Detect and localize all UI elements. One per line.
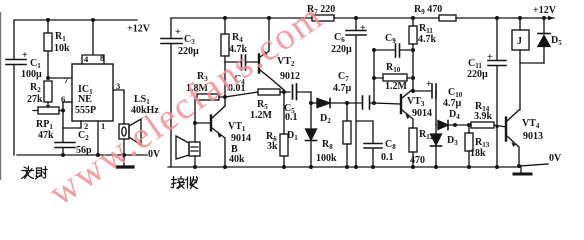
svg-text:8: 8 [100,53,104,63]
node C2 bottom [61,153,65,157]
potentiometer RP1 [47,102,49,107]
node C10 tap [411,89,415,93]
resistor R4 [224,18,226,62]
node C6 bottom [354,165,358,169]
capacitor C10 [413,91,436,125]
node D5 top [542,16,546,20]
resistor R11 [412,18,414,89]
capacitor C9 [374,49,413,51]
svg-text:9014: 9014 [231,133,251,144]
svg-text:18k: 18k [470,148,486,159]
svg-text:R1: R1 [55,31,66,43]
node C9 right [411,48,415,52]
svg-text:1: 1 [101,121,105,131]
wire receiver top rail right [456,17,554,19]
svg-text:VT4: VT4 [522,118,540,130]
svg-text:100k: 100k [316,153,337,164]
wire left scan edge [0,12,1,180]
svg-text:555P: 555P [75,105,96,116]
svg-text:9012: 9012 [280,71,300,82]
svg-text:C9: C9 [385,33,396,45]
svg-text:+: + [426,79,432,90]
svg-text:10k: 10k [54,43,70,54]
node IC supply [91,18,95,22]
resistor R9 [439,15,456,21]
svg-text:220µ: 220µ [178,46,199,57]
ground receiver [520,166,522,173]
svg-text:0.1: 0.1 [285,112,298,123]
node R12 bottom [411,165,415,169]
node R13 bottom [467,165,471,169]
resistor R6 [283,92,285,167]
capacitor C6 [355,18,357,167]
svg-text:R8: R8 [322,139,333,151]
svg-text:VT3: VT3 [407,96,425,108]
svg-text:40k: 40k [229,154,245,165]
svg-text:+: + [360,23,366,34]
svg-text:D3: D3 [447,135,458,147]
op-amp U1 IC1 NE555P box [72,64,113,121]
svg-text:VT1: VT1 [228,121,246,133]
svg-text:+: + [22,50,28,61]
svg-text:D1: D1 [287,130,298,142]
wire pin2 [63,121,81,128]
svg-text:220µ: 220µ [331,44,352,55]
svg-text:1.2M: 1.2M [385,81,408,92]
resistor R13 [468,125,470,167]
node LS1 bottom [122,153,126,157]
transistor Q2 VT2 [258,55,260,73]
wire C5 to D2 jog [310,92,312,103]
svg-text:C2: C2 [78,130,89,142]
node VT1 collector R3 [223,95,227,99]
resistor R8 [346,103,348,167]
node fa-she chinese label 发射 [22,167,48,180]
svg-text:C6: C6 [334,32,345,44]
svg-text:2: 2 [84,121,88,131]
node VT1 base [193,121,197,125]
wire transmitter top rail [14,19,137,21]
node VT4 emitter bottom [517,164,521,168]
node C11 cross [495,125,498,128]
diode D1 [310,103,312,129]
node VT2 emitter [267,16,271,20]
node relay top [518,16,522,20]
node D1 D2 [309,101,313,105]
diode D4 [438,121,448,130]
svg-text:220µ: 220µ [467,69,488,80]
diode D3 [435,125,437,134]
resistor R7 [312,15,334,21]
capacitor C1 [6,60,26,65]
wire receiver top rail left [171,17,312,19]
capacitor C11 [496,18,498,167]
svg-text:27k: 27k [27,94,43,105]
relay J [519,18,521,63]
svg-text:D4: D4 [449,109,460,121]
svg-text:R2: R2 [30,82,41,94]
wire pins 4 8 bracket [82,20,104,64]
node jie-shou chinese label 接收 [171,177,198,189]
transistor Q3 VT3 [400,95,402,113]
node R10 right [411,76,415,80]
node R8 top [345,101,349,105]
ground transmitter [123,155,125,166]
wire receiver top rail mid [334,17,439,19]
node pin7 [46,76,50,80]
diode D5 [543,18,545,34]
node R4 top [223,16,227,20]
capacitor C2 [55,143,75,148]
capacitor C7 [347,102,374,104]
wire C4 node [225,61,259,63]
node C8 bottom [371,165,375,169]
wire pin6 column [62,102,64,155]
node R11 top [411,16,415,20]
resistor R1 [47,20,49,78]
node mic bottom [193,165,197,169]
svg-text:0V: 0V [549,153,562,164]
node D1 bottom [309,165,313,169]
wire feedback vertical [373,50,375,103]
capacitor C4 [242,55,246,70]
svg-text:3: 3 [116,81,120,91]
svg-text:6: 6 [61,94,65,104]
svg-text:C7: C7 [338,71,349,83]
svg-text:100µ: 100µ [21,69,42,80]
node C6 top [354,16,358,20]
node C9 left [372,48,376,52]
node R10 left [372,76,376,80]
capacitor C3 [161,39,182,44]
wire receiver C3 column [170,18,172,167]
svg-text:D5: D5 [551,35,562,47]
node VT3 base feedback [372,101,376,105]
svg-text:+: + [175,27,181,38]
capacitor C5 [284,84,311,100]
node VT1 emitter bottom [223,165,227,169]
resistor R14 [471,122,494,128]
svg-text:470: 470 [410,155,425,166]
resistor R3 [197,94,219,100]
node D4 out [453,123,457,127]
svg-text:47k: 47k [38,130,54,141]
wire receiver bottom rail [168,166,519,168]
svg-text:C8: C8 [385,139,396,151]
svg-text:9013: 9013 [523,131,543,142]
resistor R10 [383,74,407,81]
wire 0V tail [519,164,548,166]
wire transmitter bottom rail [17,154,147,156]
wire C8 branch [356,121,373,167]
svg-text:4.7µ: 4.7µ [333,83,352,94]
transistor Q1 VT1 [195,122,211,124]
resistor R12 [409,128,417,152]
node RP1 right [61,109,65,113]
svg-text:3k: 3k [267,141,278,152]
wire pin3 [113,90,124,124]
transistor Q4 VT4 [505,118,507,141]
svg-text:7: 7 [64,75,69,85]
wire R3-R5 [225,92,258,97]
resistor R2 [44,81,52,102]
svg-text:3.9k: 3.9k [474,111,493,122]
svg-text:+: + [487,52,493,63]
svg-text:R10: R10 [386,62,401,74]
node VT2 collector [282,90,286,94]
svg-text:J: J [517,36,522,47]
svg-text:R12: R12 [419,129,434,141]
svg-text:1.2M: 1.2M [250,110,273,121]
node C11 bottom [495,165,499,169]
node D3 bottom [434,165,438,169]
node C11 top [495,16,499,20]
svg-text:D2: D2 [320,113,331,125]
svg-text:4.7k: 4.7k [418,34,437,45]
microphone B [194,123,196,142]
node R13 top [467,123,471,127]
capacitor C8 [364,144,382,149]
svg-text:0.1: 0.1 [381,152,394,163]
transducer LS1 [119,124,129,139]
svg-text:+12V: +12V [533,5,557,16]
diode D2 [311,102,317,104]
node pin1 bottom [96,153,100,157]
node R6 bottom [282,165,286,169]
wire relay D5 join [520,63,544,110]
wire watermark [41,0,331,214]
svg-text:R9 470: R9 470 [414,4,442,16]
svg-text:9014: 9014 [412,108,432,119]
resistor R5 [258,89,280,95]
wire pin7 stub [48,77,72,79]
node R8 bottom [345,165,349,169]
svg-text:NE: NE [78,94,92,105]
svg-text:4.7µ: 4.7µ [443,98,462,109]
wire pin1 [97,121,99,155]
wire transmitter left column [13,20,15,155]
node R1 top [46,18,50,22]
svg-text:C3: C3 [184,34,195,46]
svg-text:+12V: +12V [127,24,151,35]
